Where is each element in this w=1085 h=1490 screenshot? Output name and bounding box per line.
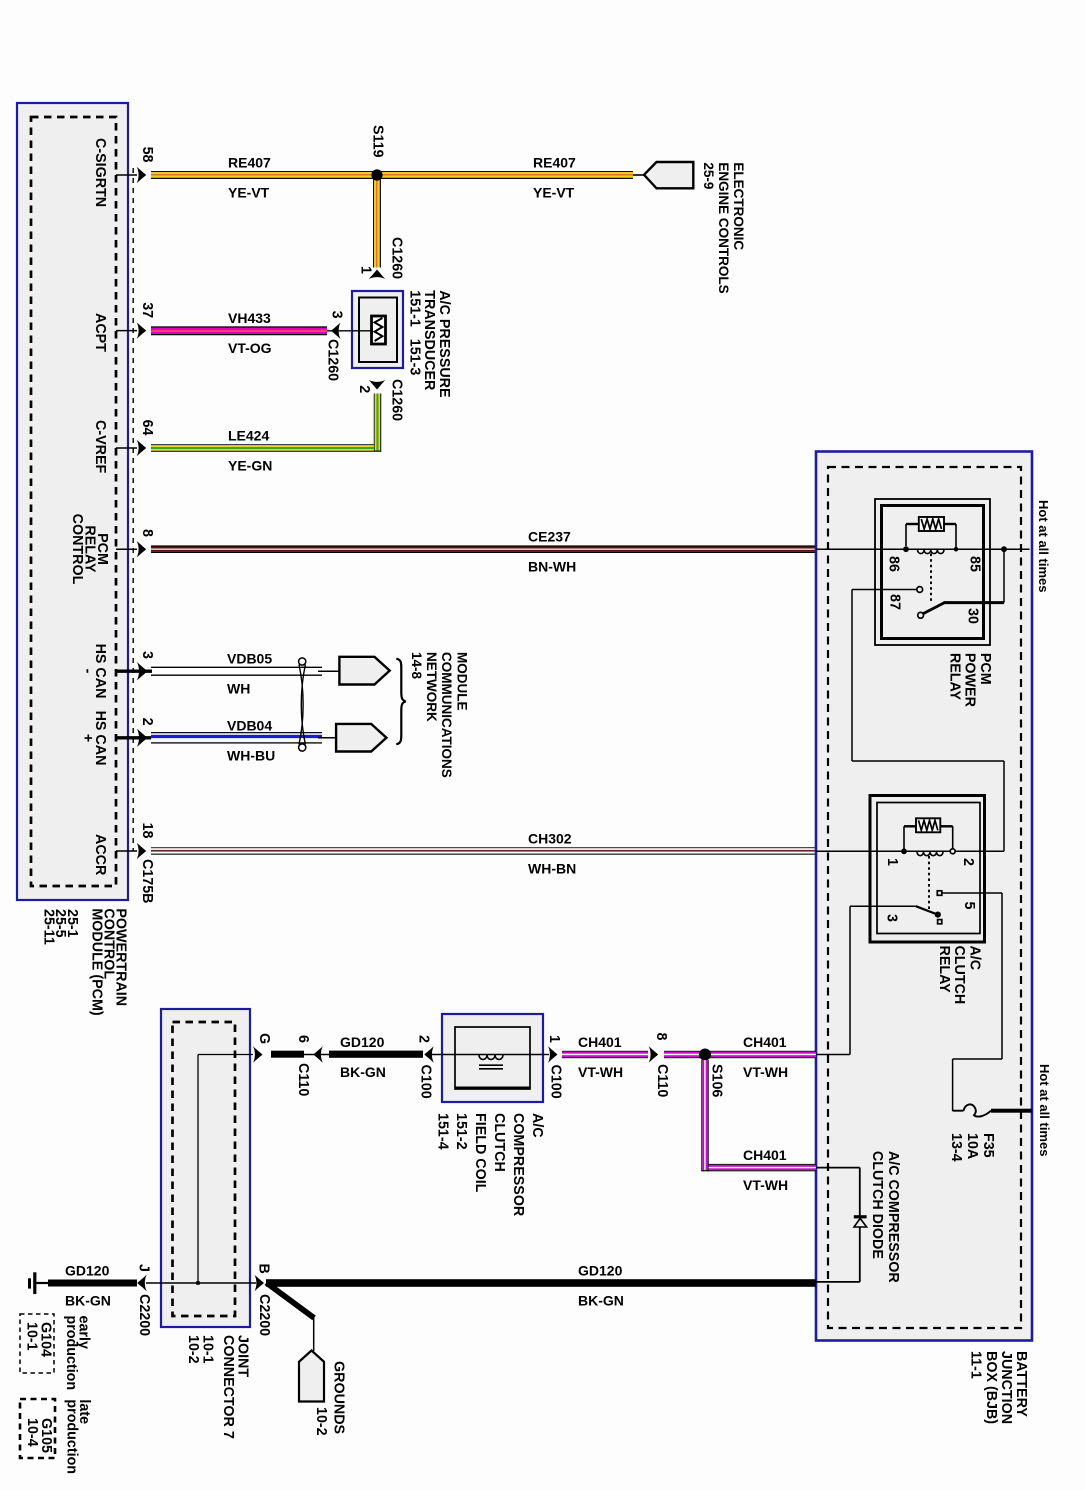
field coil core xyxy=(479,1064,503,1066)
clutch relay resistor xyxy=(916,818,940,832)
svg-text:J: J xyxy=(135,1264,151,1272)
PCM relay resistor xyxy=(919,517,944,531)
svg-text:RELAY: RELAY xyxy=(946,653,962,701)
svg-text:8: 8 xyxy=(653,1033,669,1041)
PCM connector C175B dashed line xyxy=(132,168,134,851)
EEC off-page connector arrow xyxy=(644,162,693,188)
GROUNDS off-page connector arrow xyxy=(299,1351,324,1402)
svg-text:C1260: C1260 xyxy=(388,237,404,279)
A/C pressure transducer box xyxy=(352,291,403,368)
svg-text:C-SIGRTN: C-SIGRTN xyxy=(92,138,108,207)
A/C clutch relay inner box xyxy=(877,803,980,934)
svg-text:2: 2 xyxy=(415,1035,431,1043)
field coil winding xyxy=(479,1055,503,1060)
svg-text:5: 5 xyxy=(961,902,977,910)
ground G105 dashed box xyxy=(20,1399,55,1458)
svg-text:3: 3 xyxy=(139,651,155,659)
svg-text:VT-WH: VT-WH xyxy=(578,1064,623,1080)
battery junction box (BJB) xyxy=(816,452,1032,1341)
BJB inner dashed outline xyxy=(828,467,1021,1328)
svg-text:VDB04: VDB04 xyxy=(227,717,272,733)
clutch relay coil xyxy=(917,852,943,856)
svg-text:ELECTRONIC: ELECTRONIC xyxy=(731,162,746,250)
joint connector inner dashed outline xyxy=(173,1022,236,1316)
VDB05 connector arrow xyxy=(339,657,389,685)
wire CH401 VT-WH segment 2 xyxy=(664,1051,816,1052)
transducer sensor symbol xyxy=(352,330,372,332)
svg-text:151-2: 151-2 xyxy=(453,1113,469,1150)
C1260 pin 2 arrow xyxy=(369,380,385,390)
svg-text:POWER: POWER xyxy=(962,653,978,708)
powertrain control module (PCM) box xyxy=(17,103,128,900)
svg-text:1: 1 xyxy=(546,1035,562,1043)
svg-text:VH433: VH433 xyxy=(228,310,271,326)
svg-text:58: 58 xyxy=(139,147,155,163)
PCM relay switch blade xyxy=(922,603,945,615)
PCM relay pin 30 line xyxy=(944,601,1005,604)
svg-text:VDB05: VDB05 xyxy=(227,651,272,667)
svg-text:RE407: RE407 xyxy=(228,155,271,171)
PCM pin 58 arrow xyxy=(137,167,147,183)
C1260 pin 3 arrow xyxy=(331,323,341,339)
PCM pin 64 arrow xyxy=(137,440,147,456)
C1260 pin 1 arrow xyxy=(369,270,385,280)
wire VH433 VT-OG xyxy=(151,326,327,328)
svg-text:C100: C100 xyxy=(417,1065,433,1099)
svg-text:CLUTCH: CLUTCH xyxy=(491,1113,507,1172)
svg-text:2: 2 xyxy=(139,718,155,726)
transducer inner box xyxy=(359,298,397,363)
PCM pin 2 stub xyxy=(116,736,152,739)
svg-text:1: 1 xyxy=(357,266,373,274)
svg-text:CONNECTOR 7: CONNECTOR 7 xyxy=(220,1335,236,1439)
svg-text:GD120: GD120 xyxy=(65,1263,110,1279)
svg-text:production: production xyxy=(63,1399,79,1474)
PCM relay coil xyxy=(918,550,944,554)
svg-text:10-1: 10-1 xyxy=(23,1322,39,1351)
wire LE424 YE-GN horizontal xyxy=(151,444,374,445)
svg-text:BATTERY: BATTERY xyxy=(1013,1351,1029,1417)
EEC connector stub xyxy=(633,174,646,176)
pin 1 arrow C100 xyxy=(548,1046,558,1062)
PCM pin 18 arrow xyxy=(137,843,147,859)
svg-text:TRANSDUCER: TRANSDUCER xyxy=(421,290,437,391)
svg-text:GROUNDS: GROUNDS xyxy=(330,1361,346,1434)
svg-text:YE-GN: YE-GN xyxy=(228,458,272,474)
svg-text:C100: C100 xyxy=(547,1065,563,1099)
svg-text:14-8: 14-8 xyxy=(409,652,424,680)
svg-text:CH401: CH401 xyxy=(743,1034,787,1050)
svg-text:CLUTCH DIODE: CLUTCH DIODE xyxy=(869,1151,885,1259)
wire pin3 to CH401 xyxy=(849,906,851,1054)
A/C clutch relay outer box xyxy=(870,796,985,943)
svg-text:VT-WH: VT-WH xyxy=(743,1064,788,1080)
A/C compressor clutch field coil box xyxy=(442,1014,543,1102)
field coil inner box xyxy=(455,1027,530,1089)
svg-text:C2200: C2200 xyxy=(136,1294,152,1336)
svg-text:G: G xyxy=(256,1033,272,1044)
ground symbol xyxy=(37,1282,51,1284)
svg-text:production: production xyxy=(63,1316,79,1391)
svg-text:-: - xyxy=(79,669,95,674)
svg-text:CH401: CH401 xyxy=(743,1147,787,1163)
svg-text:C175B: C175B xyxy=(139,859,155,904)
svg-text:BK-GN: BK-GN xyxy=(578,1293,624,1309)
svg-text:C1260: C1260 xyxy=(324,339,340,381)
svg-text:30: 30 xyxy=(964,608,980,624)
svg-text:C1260: C1260 xyxy=(388,379,404,421)
PCM relay supply branch xyxy=(1003,549,1005,602)
wire CH401 VT-WH lower xyxy=(709,1164,817,1165)
svg-text:BK-GN: BK-GN xyxy=(340,1064,386,1080)
svg-text:MODULE: MODULE xyxy=(454,652,469,711)
svg-text:3: 3 xyxy=(883,914,899,922)
clutch relay pin 5 contact xyxy=(937,891,942,896)
PCM pin 3 arrow xyxy=(137,662,148,680)
twisted pair symbol xyxy=(299,665,303,745)
svg-text:JUNCTION: JUNCTION xyxy=(998,1351,1014,1424)
svg-text:11-1: 11-1 xyxy=(968,1351,984,1379)
svg-text:64: 64 xyxy=(139,420,155,436)
PCM pin 18 stub xyxy=(116,850,137,852)
pin 2 arrow C100 xyxy=(424,1046,434,1062)
svg-text:BOX (BJB): BOX (BJB) xyxy=(983,1351,999,1424)
svg-text:1: 1 xyxy=(884,858,900,866)
wire CH401 VT-WH segment 1 xyxy=(562,1051,648,1052)
svg-text:Hot at all times: Hot at all times xyxy=(1037,1064,1052,1156)
wire VDB04 WH-BU xyxy=(151,732,322,733)
splice S119 dot xyxy=(371,169,382,180)
svg-text:C-VREF: C-VREF xyxy=(92,420,108,473)
svg-text:10A: 10A xyxy=(964,1133,980,1159)
wire link pin6 xyxy=(304,1054,330,1056)
brace for module communications network xyxy=(396,659,406,744)
svg-text:6: 6 xyxy=(295,1035,311,1043)
wire pin87 to clutch relay xyxy=(851,590,853,762)
wire VDB05 WH xyxy=(151,666,322,668)
wire GD120 row through joint connector xyxy=(146,1282,256,1284)
svg-text:S106: S106 xyxy=(708,1064,724,1097)
PCM relay pin 87 contact xyxy=(852,589,917,591)
svg-text:ENGINE CONTROLS: ENGINE CONTROLS xyxy=(716,162,731,293)
PCM relay resistor leads xyxy=(906,523,919,525)
field coil wire through xyxy=(442,1054,543,1056)
svg-text:10-2: 10-2 xyxy=(185,1335,201,1364)
svg-text:NETWORK: NETWORK xyxy=(424,652,439,722)
svg-text:85: 85 xyxy=(966,556,982,572)
svg-text:YE-VT: YE-VT xyxy=(533,185,575,201)
svg-text:COMPRESSOR: COMPRESSOR xyxy=(510,1113,526,1217)
pin 6 arrow xyxy=(313,1046,323,1062)
transducer pin 3 lead outside xyxy=(327,330,352,332)
svg-text:151-4: 151-4 xyxy=(434,1113,450,1150)
svg-text:F35: F35 xyxy=(980,1133,996,1158)
wire CE237 BN-WH xyxy=(151,545,816,546)
svg-text:10-2: 10-2 xyxy=(313,1407,329,1436)
wire LE424 YE-GN vertical xyxy=(374,394,375,452)
PCM pin 8 stub xyxy=(116,548,137,550)
svg-text:18: 18 xyxy=(139,823,155,839)
svg-text:GD120: GD120 xyxy=(578,1263,623,1279)
svg-text:C2200: C2200 xyxy=(256,1294,272,1336)
svg-text:+: + xyxy=(79,734,95,742)
fuse F35 xyxy=(953,1110,964,1112)
wire GD120 stub segment xyxy=(271,1051,304,1058)
svg-text:RELAY: RELAY xyxy=(936,946,952,994)
svg-text:A/C: A/C xyxy=(967,946,983,971)
PCM pin 64 stub xyxy=(116,447,137,449)
svg-text:151-1 151-3: 151-1 151-3 xyxy=(407,290,423,375)
pin J arrow xyxy=(137,1275,147,1291)
splice S106 dot xyxy=(699,1049,711,1061)
svg-text:CH401: CH401 xyxy=(578,1034,622,1050)
wire GD120 BK-GN bottom xyxy=(266,1279,816,1287)
PCM pin 3 stub xyxy=(116,670,152,673)
PCM pin 58 stub xyxy=(116,174,137,176)
svg-text:C110: C110 xyxy=(295,1063,311,1096)
svg-text:A/C PRESSURE: A/C PRESSURE xyxy=(436,290,452,397)
svg-text:10-4: 10-4 xyxy=(24,1418,40,1447)
clutch relay coil dot 2 xyxy=(950,849,955,854)
svg-text:87: 87 xyxy=(886,594,902,610)
joint connector 7 box xyxy=(161,1009,250,1327)
svg-text:CONTROL: CONTROL xyxy=(69,514,85,585)
PCM relay coil dot 86 xyxy=(903,546,909,552)
wire CH302 WH-BN xyxy=(151,847,816,848)
PCM power relay inner box xyxy=(882,506,984,639)
grounds branch diagonal xyxy=(265,1280,316,1320)
svg-text:3: 3 xyxy=(328,311,344,319)
svg-text:BK-GN: BK-GN xyxy=(65,1293,111,1309)
svg-text:RE407: RE407 xyxy=(533,155,576,171)
svg-text:2: 2 xyxy=(960,858,976,866)
svg-text:37: 37 xyxy=(139,302,155,318)
wire GD120 BK-GN mid xyxy=(329,1051,423,1058)
svg-text:ACCR: ACCR xyxy=(92,834,108,876)
pin B arrow xyxy=(255,1275,265,1291)
svg-text:86: 86 xyxy=(885,556,901,572)
svg-text:COMMUNICATIONS: COMMUNICATIONS xyxy=(439,652,454,778)
ground G104 dashed box xyxy=(20,1314,54,1373)
VDB04 connector arrow xyxy=(336,724,386,752)
svg-text:8: 8 xyxy=(139,529,155,537)
wire link coil-C100 xyxy=(543,1054,549,1056)
splice S119 vertical wire xyxy=(373,179,374,268)
PCM pin 2 arrow xyxy=(137,729,148,747)
pin G arrow xyxy=(253,1046,263,1062)
svg-text:B: B xyxy=(255,1264,271,1274)
svg-text:CH302: CH302 xyxy=(528,831,572,847)
joint connector internal bus xyxy=(198,1054,253,1056)
clutch relay pin 3 line xyxy=(850,905,916,907)
svg-text:MODULE (PCM): MODULE (PCM) xyxy=(88,908,104,1015)
svg-text:ACPT: ACPT xyxy=(92,313,108,352)
clutch relay coil line xyxy=(816,850,1004,852)
svg-text:LE424: LE424 xyxy=(228,428,269,444)
svg-text:A/C: A/C xyxy=(529,1113,545,1138)
svg-text:WH-BN: WH-BN xyxy=(528,861,576,877)
clutch relay coil dot 1 xyxy=(901,848,907,854)
svg-text:CLUTCH: CLUTCH xyxy=(951,946,967,1005)
svg-text:C110: C110 xyxy=(654,1064,670,1097)
clutch relay switch dashed line xyxy=(928,856,930,909)
svg-text:WH-BU: WH-BU xyxy=(227,747,275,763)
PCM relay switch dashed line xyxy=(930,554,932,602)
wire pin5 to fuse xyxy=(1001,893,1003,1059)
clutch relay resistor leads xyxy=(904,825,916,827)
svg-text:25-11: 25-11 xyxy=(40,909,56,945)
PCM pin 8 arrow xyxy=(137,541,147,557)
svg-text:VT-WH: VT-WH xyxy=(743,1177,788,1193)
wire GD120 BK-GN left xyxy=(48,1280,137,1287)
PCM pin 37 arrow xyxy=(137,322,147,338)
A/C compressor clutch diode branch xyxy=(816,1167,860,1169)
PCM relay coil dot 85 xyxy=(954,547,959,552)
svg-text:Hot at all times: Hot at all times xyxy=(1036,500,1051,592)
svg-text:25-9: 25-9 xyxy=(701,162,716,189)
clutch relay switch blade xyxy=(916,906,938,914)
PCM pin 37 stub xyxy=(116,330,137,332)
wire CH401 VT-WH vertical xyxy=(701,1060,702,1171)
PCM inner dashed outline xyxy=(31,117,116,886)
svg-text:PCM: PCM xyxy=(977,653,993,685)
wire RE407 YE-VT horizontal xyxy=(151,171,633,172)
svg-text:2: 2 xyxy=(356,385,372,393)
svg-text:13-4: 13-4 xyxy=(948,1133,964,1162)
svg-text:FIELD COIL: FIELD COIL xyxy=(472,1113,488,1193)
svg-text:A/C COMPRESSOR: A/C COMPRESSOR xyxy=(885,1151,901,1284)
svg-text:YE-VT: YE-VT xyxy=(228,185,270,201)
pin 8 arrow C110 xyxy=(649,1046,659,1062)
svg-text:WH: WH xyxy=(227,681,250,697)
PCM power relay outer box xyxy=(875,499,990,645)
wire link C100 xyxy=(431,1054,455,1056)
svg-text:VT-OG: VT-OG xyxy=(228,340,272,356)
PCM relay supply line xyxy=(816,548,1030,550)
svg-text:BN-WH: BN-WH xyxy=(528,559,576,575)
svg-text:CE237: CE237 xyxy=(528,529,571,545)
svg-text:GD120: GD120 xyxy=(340,1034,385,1050)
svg-text:S119: S119 xyxy=(369,125,385,158)
